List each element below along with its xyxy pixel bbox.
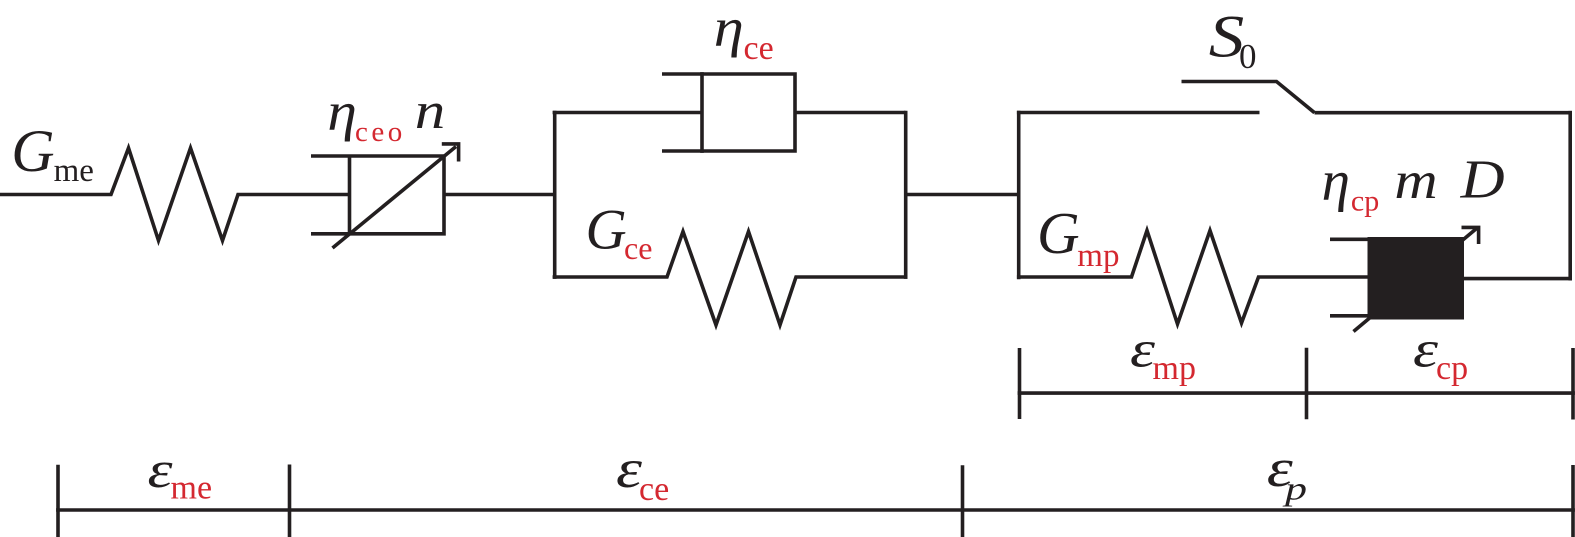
svg-text:p: p (1282, 472, 1307, 507)
svg-text:0: 0 (1239, 37, 1257, 76)
svg-text:mp: mp (1077, 238, 1119, 274)
svg-text:η: η (714, 0, 744, 58)
svg-text:ce: ce (744, 30, 774, 67)
svg-text:me: me (54, 153, 94, 189)
svg-text:cp: cp (1436, 350, 1468, 387)
svg-text:G: G (1037, 200, 1080, 266)
svg-text:η: η (1322, 150, 1350, 213)
svg-text:G: G (586, 199, 627, 262)
svg-text:η: η (327, 81, 357, 142)
svg-text:ce: ce (624, 230, 652, 266)
svg-text:mp: mp (1153, 350, 1196, 387)
svg-text:m: m (1394, 152, 1437, 210)
svg-text:G: G (11, 118, 54, 184)
svg-text:ε: ε (1413, 322, 1439, 379)
svg-text:D: D (1460, 148, 1505, 209)
svg-text:ce: ce (639, 471, 669, 508)
svg-text:ceo: ceo (355, 116, 406, 148)
svg-text:me: me (171, 469, 213, 506)
svg-text:n: n (415, 83, 446, 140)
svg-text:ε: ε (148, 442, 174, 499)
svg-text:cp: cp (1351, 185, 1379, 218)
